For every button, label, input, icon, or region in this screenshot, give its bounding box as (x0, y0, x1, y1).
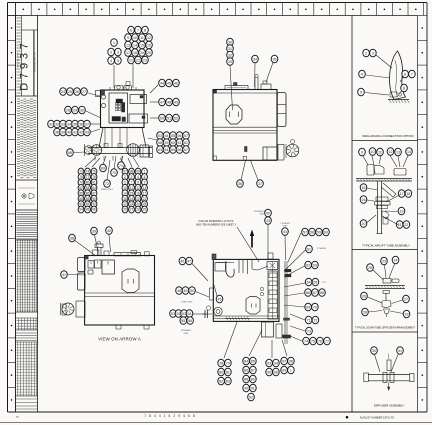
svg-text:11: 11 (130, 186, 134, 190)
svg-text:76: 76 (79, 175, 83, 179)
balloon chains below view 4 (218, 322, 294, 401)
svg-text:52: 52 (177, 312, 181, 316)
svg-text:2: 2 (365, 51, 367, 55)
svg-text:73: 73 (307, 329, 311, 333)
svg-text:22: 22 (123, 202, 127, 206)
svg-text:DESLUDGING CONNECTION OPTION: DESLUDGING CONNECTION OPTION (362, 134, 413, 138)
svg-text:59: 59 (317, 230, 321, 234)
svg-text:54: 54 (188, 312, 192, 316)
svg-text:45: 45 (218, 297, 222, 301)
svg-text:41: 41 (73, 130, 77, 134)
svg-text:3: 3 (372, 51, 374, 55)
svg-text:79: 79 (226, 361, 230, 365)
balloon row left of view 1 middle (65, 106, 101, 118)
svg-text:18: 18 (406, 192, 410, 196)
svg-text:26: 26 (75, 90, 79, 94)
svg-text:10: 10 (123, 186, 127, 190)
svg-text:89: 89 (251, 377, 255, 381)
svg-text:92: 92 (86, 202, 90, 206)
hanging balloons below view 1 base (100, 156, 125, 191)
svg-text:47: 47 (187, 259, 191, 263)
svg-text:64: 64 (307, 280, 311, 284)
svg-text:4: 4 (137, 175, 139, 179)
svg-text:68: 68 (68, 151, 72, 155)
svg-text:7: 7 (137, 28, 139, 32)
right column pipe outside view 4 (283, 261, 292, 344)
svg-text:93: 93 (267, 361, 271, 365)
svg-text:16: 16 (147, 43, 151, 47)
svg-text:29: 29 (143, 208, 147, 212)
svg-text:46: 46 (174, 81, 178, 85)
view 1 right pump ribbed disc and motor (127, 144, 153, 158)
svg-text:86: 86 (244, 368, 248, 372)
svg-text:5: 5 (360, 90, 362, 94)
svg-text:89: 89 (86, 197, 90, 201)
svg-text:79: 79 (79, 180, 83, 184)
svg-text:1: 1 (144, 170, 146, 174)
balloon cluster above view 1 right (125, 26, 153, 88)
svg-text:23: 23 (143, 58, 147, 62)
detail 2 lower balloons (360, 184, 412, 229)
view 4 note text (196, 220, 259, 262)
svg-text:TYPICAL DOWNTUBE DIFFUSER ARRA: TYPICAL DOWNTUBE DIFFUSER ARRANGEMENT (355, 326, 415, 330)
svg-text:53: 53 (182, 312, 186, 316)
svg-text:15: 15 (362, 186, 366, 190)
top margin grid tick boxes with dots (8, 3, 424, 16)
svg-text:2: 2 (124, 175, 126, 179)
svg-text:55: 55 (181, 319, 185, 323)
svg-text:AUGUST HAMBER 1973 LTD: AUGUST HAMBER 1973 LTD (360, 416, 395, 420)
svg-text:90: 90 (244, 386, 248, 390)
svg-text:AND ITEM NUMBERS SEE SHEET 2: AND ITEM NUMBERS SEE SHEET 2 (196, 224, 237, 227)
svg-text:21: 21 (143, 197, 147, 201)
svg-text:5: 5 (117, 59, 119, 63)
detail 4 diffuser assembly (364, 347, 414, 391)
svg-text:53: 53 (158, 134, 162, 138)
svg-text:22: 22 (404, 223, 408, 227)
balloon cluster right of view 1 base (148, 132, 189, 154)
view 4 small texts above (254, 210, 291, 228)
svg-text:81: 81 (226, 370, 230, 374)
svg-text:74: 74 (86, 170, 90, 174)
svg-text:14: 14 (407, 150, 411, 154)
svg-text:4: 4 (110, 59, 112, 63)
svg-text:6: 6 (404, 72, 406, 76)
svg-text:4: 4 (361, 72, 363, 76)
view 2 right attached box (277, 93, 286, 127)
svg-text:14: 14 (133, 43, 137, 47)
svg-text:78: 78 (92, 175, 96, 179)
svg-text:62: 62 (184, 141, 188, 145)
view 1 plan view main body (101, 90, 148, 128)
svg-text:95: 95 (86, 208, 90, 212)
svg-text:81: 81 (92, 180, 96, 184)
svg-text:88: 88 (79, 197, 83, 201)
svg-text:7: 7 (131, 180, 133, 184)
svg-text:60: 60 (171, 141, 175, 145)
projection symbol box (18, 188, 35, 204)
svg-text:24: 24 (61, 90, 65, 94)
svg-text:56: 56 (178, 134, 182, 138)
svg-text:9: 9 (127, 36, 129, 40)
svg-text:60: 60 (324, 230, 328, 234)
balloon chain above view 1 left (108, 39, 121, 88)
svg-text:47: 47 (160, 100, 164, 104)
view 4 internal pipework (215, 260, 268, 277)
svg-text:40: 40 (67, 130, 71, 134)
svg-text:23: 23 (130, 202, 134, 206)
svg-text:80: 80 (86, 180, 90, 184)
svg-text:62: 62 (306, 263, 310, 267)
svg-text:15: 15 (140, 43, 144, 47)
svg-text:43: 43 (266, 219, 270, 223)
svg-text:2: 2 (110, 50, 112, 54)
svg-text:31: 31 (49, 122, 53, 126)
detail 1 balloons (358, 49, 416, 96)
left margin grid tick boxes with dots (8, 3, 16, 413)
svg-text:98: 98 (289, 359, 293, 363)
svg-text:30: 30 (372, 349, 376, 353)
svg-text:10: 10 (133, 36, 137, 40)
svg-text:32: 32 (55, 122, 59, 126)
svg-text:85: 85 (251, 359, 255, 363)
right detail column frame (352, 16, 418, 413)
view 2 elevation body (213, 90, 277, 161)
svg-text:73: 73 (79, 170, 83, 174)
svg-text:8: 8 (137, 180, 139, 184)
svg-text:84: 84 (244, 359, 248, 363)
svg-text:85: 85 (79, 191, 83, 195)
svg-text:87: 87 (92, 191, 96, 195)
view 4 internal hatched diffuser bar (225, 317, 250, 321)
svg-text:34: 34 (253, 57, 257, 61)
svg-text:20: 20 (147, 51, 151, 55)
svg-text:82: 82 (219, 379, 223, 383)
svg-text:36: 36 (238, 182, 242, 186)
svg-text:46: 46 (180, 259, 184, 263)
svg-text:34: 34 (67, 122, 71, 126)
svg-text:64: 64 (165, 148, 169, 152)
view 1 left small box (96, 91, 101, 97)
svg-text:6: 6 (130, 28, 132, 32)
svg-text:31: 31 (228, 47, 232, 51)
svg-text:9: 9 (144, 180, 146, 184)
balloons below view 2 (237, 161, 264, 188)
balloons left of view 4 middle trio (176, 287, 209, 297)
svg-text:ONLY: ONLY (183, 333, 189, 335)
single balloon above view 2 right (266, 55, 278, 82)
svg-text:96: 96 (274, 370, 278, 374)
balloons right of view 4 with leaders (284, 245, 330, 345)
svg-text:STBD ONLY: STBD ONLY (181, 302, 193, 304)
svg-text:58: 58 (310, 230, 314, 234)
svg-text:24: 24 (394, 258, 398, 262)
svg-text:39: 39 (61, 130, 65, 134)
svg-text:83: 83 (226, 379, 230, 383)
svg-text:38: 38 (70, 236, 74, 240)
svg-text:54: 54 (165, 134, 169, 138)
svg-text:32: 32 (228, 53, 232, 57)
svg-text:28: 28 (66, 108, 70, 112)
svg-text:70: 70 (112, 171, 116, 175)
svg-text:49: 49 (174, 100, 178, 104)
balloons left of view 4 upper pair (179, 257, 208, 281)
view 3 top pipes and fittings (92, 241, 149, 256)
svg-text:78: 78 (219, 361, 223, 365)
svg-text:69: 69 (306, 305, 310, 309)
svg-text:5: 5 (144, 175, 146, 179)
svg-text:TYPICAL AIRLIFT TUBE ASSEMBLY: TYPICAL AIRLIFT TUBE ASSEMBLY (362, 244, 410, 248)
svg-text:82: 82 (79, 186, 83, 190)
view 2 top manhole and fittings (225, 74, 271, 89)
view 1 left pump with hatched impeller (84, 144, 102, 156)
svg-text:12: 12 (147, 36, 151, 40)
svg-text:25: 25 (68, 90, 72, 94)
svg-text:90: 90 (92, 197, 96, 201)
balloons left of view 4 lower cluster (170, 302, 208, 336)
detail 1 desludging connection curved hull plate (388, 51, 409, 103)
svg-text:55: 55 (171, 134, 175, 138)
single balloon above view 4 right (282, 228, 289, 260)
svg-text:VIEW ON ARROW A: VIEW ON ARROW A (98, 337, 141, 342)
svg-text:65: 65 (171, 148, 175, 152)
balloon row right of view 4 top (288, 228, 329, 262)
svg-text:STBD ONLY: STBD ONLY (101, 189, 114, 191)
svg-text:23: 23 (382, 259, 386, 263)
svg-text:80: 80 (219, 370, 223, 374)
svg-text:7 8 4 4 1 6 2 9 4 6 8: 7 8 4 4 1 6 2 9 4 6 8 (144, 414, 195, 418)
svg-text:69: 69 (101, 166, 105, 170)
svg-text:16: 16 (136, 191, 140, 195)
svg-text:63: 63 (313, 263, 317, 267)
balloon pair above view 4 (265, 209, 272, 259)
svg-text:11: 11 (140, 36, 144, 40)
svg-text:57: 57 (303, 230, 307, 234)
view 2 access port octagon (226, 105, 242, 124)
svg-text:20: 20 (136, 197, 140, 201)
svg-text:31: 31 (398, 349, 402, 353)
svg-text:65: 65 (313, 280, 317, 284)
svg-text:35: 35 (273, 57, 277, 61)
notes text block (17, 213, 38, 239)
svg-text:93: 93 (92, 202, 96, 206)
drawing number D7937 rotated (19, 30, 38, 91)
svg-text:43: 43 (85, 130, 89, 134)
detail 2 airlift tube assembly (356, 148, 412, 253)
svg-text:66: 66 (306, 291, 310, 295)
svg-text:21: 21 (129, 58, 133, 62)
svg-text:71: 71 (307, 318, 311, 322)
svg-text:83: 83 (86, 186, 90, 190)
view 3 bottom-left pump (61, 301, 86, 317)
svg-text:STBD/AUX: STBD/AUX (181, 329, 192, 332)
svg-text:29: 29 (405, 312, 409, 316)
svg-text:1: 1 (290, 368, 292, 372)
svg-text:ISSUE RECORD: ISSUE RECORD (18, 52, 20, 68)
view 3 upper-left boxes (88, 260, 115, 274)
svg-text:2 PL: 2 PL (322, 282, 326, 284)
svg-text:24: 24 (136, 202, 140, 206)
svg-text:88: 88 (244, 377, 248, 381)
svg-text:33: 33 (228, 60, 232, 64)
svg-text:27: 27 (82, 90, 86, 94)
svg-text:17: 17 (400, 192, 404, 196)
svg-text:72: 72 (313, 318, 317, 322)
svg-text:17: 17 (143, 191, 147, 195)
svg-text:36: 36 (79, 122, 83, 126)
svg-text:17: 17 (126, 51, 130, 55)
svg-text:37: 37 (258, 182, 262, 186)
view 4 internal port and flange (214, 285, 260, 316)
svg-text:28: 28 (363, 310, 367, 314)
svg-text:97: 97 (282, 359, 286, 363)
svg-text:45: 45 (167, 81, 171, 85)
svg-text:29: 29 (73, 108, 77, 112)
svg-text:71: 71 (119, 164, 123, 168)
svg-text:77: 77 (86, 175, 90, 179)
balloon rows left of view 1 lower (48, 120, 100, 136)
svg-text:12: 12 (136, 186, 140, 190)
svg-text:ONLY: ONLY (282, 226, 288, 228)
svg-text:9: 9 (361, 150, 363, 154)
svg-text:44: 44 (160, 81, 164, 85)
view 4 section body (212, 254, 279, 321)
svg-text:56: 56 (188, 319, 192, 323)
svg-text:6: 6 (124, 180, 126, 184)
svg-text:61: 61 (178, 141, 182, 145)
svg-text:16: 16 (362, 198, 366, 202)
svg-text:15: 15 (130, 191, 134, 195)
svg-text:8: 8 (144, 28, 146, 32)
svg-text:42: 42 (79, 130, 83, 134)
svg-text:10: 10 (371, 150, 375, 154)
svg-text:91: 91 (79, 202, 83, 206)
svg-text:30: 30 (80, 108, 84, 112)
svg-text:92: 92 (249, 395, 253, 399)
single balloon left of base (67, 149, 85, 157)
svg-text:68: 68 (320, 291, 324, 295)
view 2 bottom right pump assembly (263, 140, 299, 161)
svg-text:20: 20 (362, 222, 366, 226)
title block strip (rotated, left side) (16, 16, 38, 413)
balloon rows right of view 1 (150, 79, 179, 122)
svg-text:a): a) (16, 415, 19, 419)
svg-text:30: 30 (228, 40, 232, 44)
balloon row left of view 1 upper (60, 88, 100, 96)
view 3 left attachments (78, 258, 86, 291)
svg-text:84: 84 (92, 186, 96, 190)
svg-text:7: 7 (411, 72, 413, 76)
bottom right copyright note (346, 416, 395, 420)
svg-text:D7937: D7937 (19, 39, 31, 90)
svg-text:3: 3 (117, 50, 119, 54)
svg-text:67: 67 (313, 291, 317, 295)
svg-text:38: 38 (55, 130, 59, 134)
svg-text:33: 33 (61, 122, 65, 126)
svg-text:DIFFUSER ASSEMBLY: DIFFUSER ASSEMBLY (374, 404, 405, 408)
svg-text:26: 26 (123, 208, 127, 212)
svg-text:74: 74 (304, 339, 308, 343)
svg-text:86: 86 (86, 191, 90, 195)
view 4 left flange details (202, 288, 214, 318)
svg-text:28: 28 (136, 208, 140, 212)
svg-text:72: 72 (105, 182, 109, 186)
single balloon above view 2 center (252, 55, 259, 87)
svg-text:77: 77 (325, 339, 329, 343)
svg-text:51: 51 (171, 312, 175, 316)
svg-text:13: 13 (396, 150, 400, 154)
svg-text:59: 59 (165, 141, 169, 145)
svg-text:66: 66 (178, 148, 182, 152)
view 4 right internal column (260, 253, 277, 319)
parts list table (17, 240, 38, 312)
view 3 access port (122, 269, 139, 293)
svg-text:70: 70 (313, 305, 317, 309)
single balloon left of view 3 (61, 271, 86, 279)
svg-text:37: 37 (85, 122, 89, 126)
svg-text:35: 35 (73, 122, 77, 126)
title block small text smudge rows (17, 18, 37, 177)
svg-text:25: 25 (368, 266, 372, 270)
svg-text:96: 96 (92, 208, 96, 212)
view 1 base skirt and rails (88, 128, 152, 161)
svg-text:42: 42 (266, 211, 270, 215)
svg-text:19: 19 (130, 197, 134, 201)
svg-text:61: 61 (307, 247, 311, 251)
svg-text:19: 19 (400, 209, 404, 213)
svg-text:99: 99 (136, 170, 140, 174)
balloon cluster below view 1 right (120, 157, 147, 213)
svg-text:26: 26 (362, 294, 366, 298)
lower table sections (16, 318, 37, 419)
svg-text:75: 75 (92, 170, 96, 174)
svg-text:58: 58 (158, 141, 162, 145)
svg-text:94: 94 (79, 208, 83, 212)
svg-text:18: 18 (123, 197, 127, 201)
svg-text:97: 97 (123, 170, 127, 174)
svg-text:12: 12 (389, 150, 393, 154)
svg-text:25: 25 (143, 202, 147, 206)
svg-text:76: 76 (318, 339, 322, 343)
svg-text:94: 94 (274, 361, 278, 365)
svg-text:SEWAGE UNIT GA: SEWAGE UNIT GA (34, 52, 37, 72)
svg-text:2 PLACES: 2 PLACES (317, 247, 327, 250)
svg-text:50: 50 (190, 289, 194, 293)
view 4 up arrow (250, 230, 254, 248)
svg-text:41: 41 (62, 273, 66, 277)
svg-text:11: 11 (378, 150, 382, 154)
svg-text:95: 95 (267, 370, 271, 374)
svg-text:22: 22 (136, 58, 140, 62)
svg-text:49: 49 (184, 289, 188, 293)
svg-text:63: 63 (158, 148, 162, 152)
svg-text:75: 75 (311, 339, 315, 343)
svg-text:14: 14 (123, 191, 127, 195)
svg-text:3: 3 (131, 175, 133, 179)
svg-text:39: 39 (92, 229, 96, 233)
svg-text:1: 1 (113, 41, 115, 45)
view 3 elevation body (view on arrow A) (85, 256, 155, 330)
svg-text:50: 50 (160, 116, 164, 120)
svg-text:19: 19 (140, 51, 144, 55)
svg-text:40: 40 (107, 229, 111, 233)
svg-text:57: 57 (184, 134, 188, 138)
svg-text:52: 52 (174, 116, 178, 120)
balloon cluster below view 1 left (78, 157, 100, 213)
balloon chain above view 2 (227, 38, 234, 110)
svg-text:67: 67 (184, 148, 188, 152)
svg-text:44: 44 (283, 230, 287, 234)
